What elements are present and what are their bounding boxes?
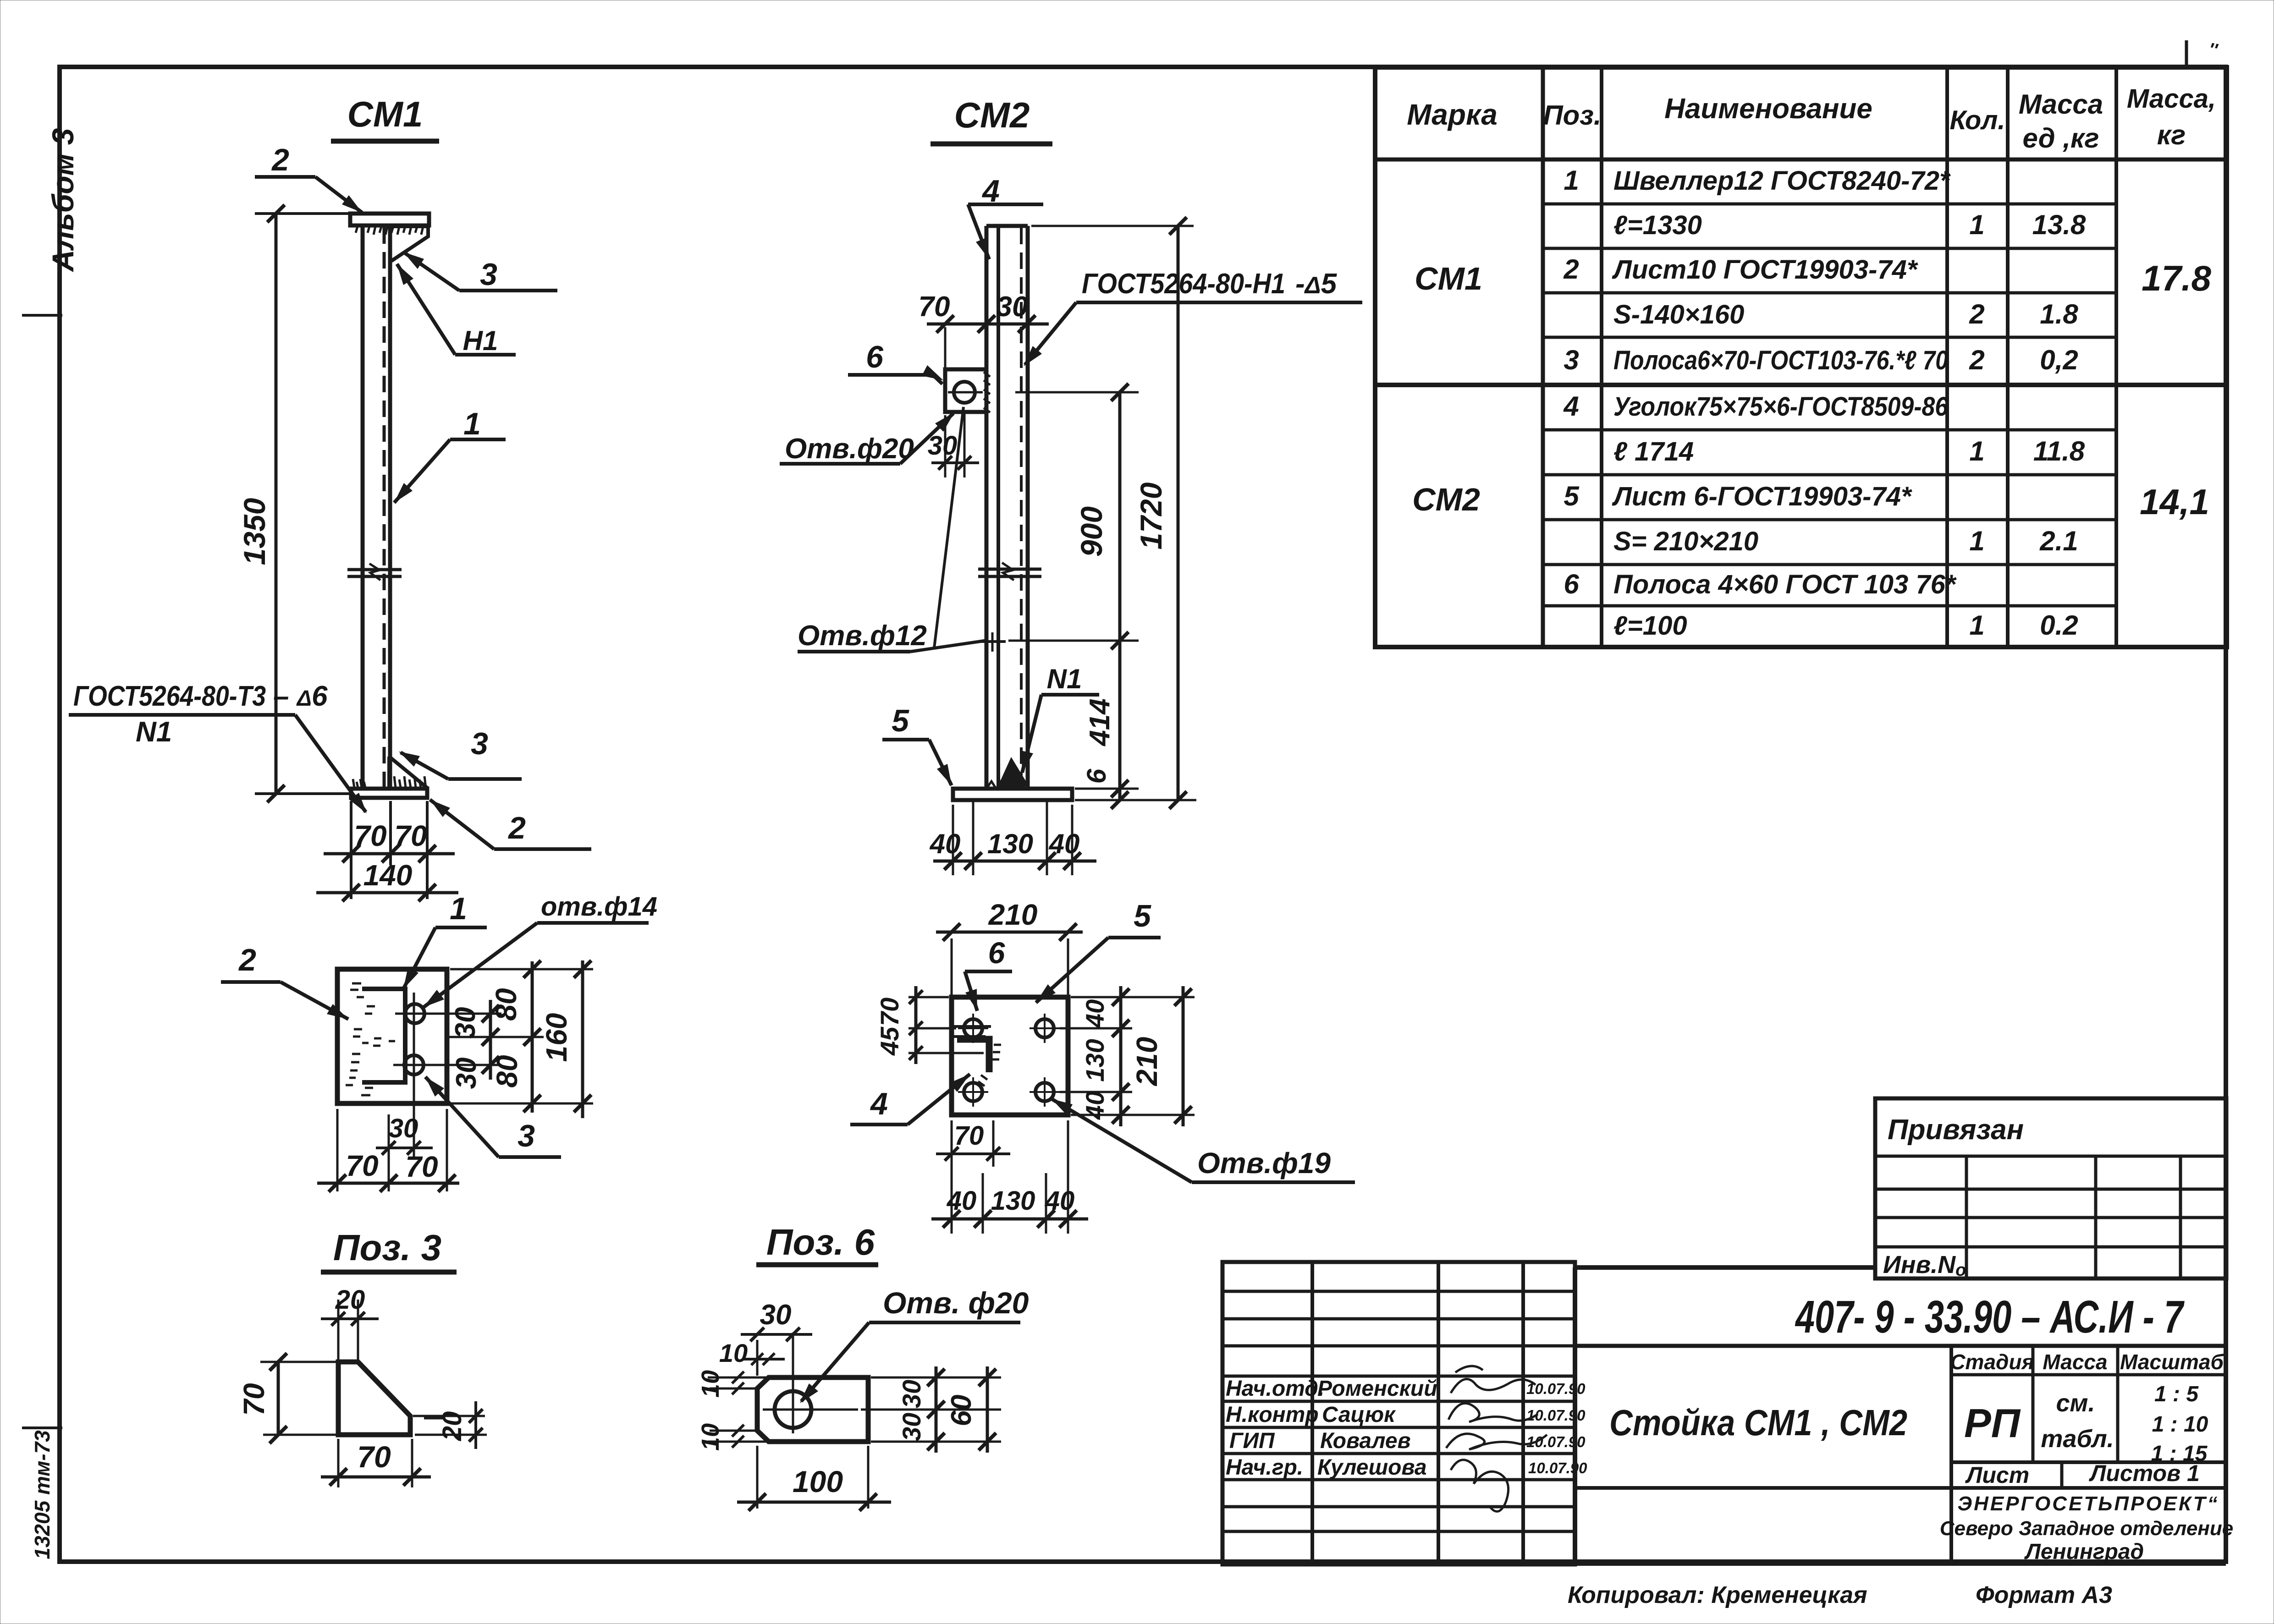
CM2 dim 30 below line xyxy=(931,461,979,464)
Поз.6 dim 10 left lower ext xyxy=(710,1430,755,1432)
svg-text:1: 1 xyxy=(1969,526,1984,556)
svg-text:130: 130 xyxy=(987,828,1033,859)
CM2 weld zigzag at column base xyxy=(986,781,1025,789)
CM2 dim 1720 ext top xyxy=(1031,225,1194,227)
svg-text:10: 10 xyxy=(719,1339,748,1367)
svg-text:160: 160 xyxy=(540,1013,573,1062)
svg-text:Копировал: Кременецкая: Копировал: Кременецкая xyxy=(1568,1582,1867,1608)
svg-text:13205 тм-73: 13205 тм-73 xyxy=(30,1430,54,1559)
CM2 plate top ext line xyxy=(1075,788,1139,790)
svg-text:Масса: Масса xyxy=(2019,89,2103,120)
svg-text:1: 1 xyxy=(1969,610,1984,641)
CM2 plan weld marks xyxy=(991,1045,1001,1059)
CM2 plan dim 40/130/40 bottom line xyxy=(931,1218,1088,1221)
CM1 title underline xyxy=(331,139,439,144)
svg-text:80: 80 xyxy=(490,988,523,1020)
CM2 plan dim 210 top line xyxy=(936,931,1083,934)
CM2 dim 70/30 ext lines xyxy=(944,327,947,368)
Поз.3 dim 70 left line xyxy=(277,1362,280,1435)
CM2 column (поз.4 уголок 75×75×6) top edge xyxy=(986,224,1028,228)
CM2 plate bottom ext line xyxy=(1075,799,1196,801)
svg-text:Н1: Н1 xyxy=(463,325,498,356)
signature table outer xyxy=(1222,1262,1575,1564)
svg-text:1720: 1720 xyxy=(1134,482,1168,549)
svg-text:Масштаб: Масштаб xyxy=(2120,1350,2224,1374)
привязан row line 2 xyxy=(1875,1188,2226,1191)
svg-text:Уголок75×75×6-ГОСТ8509-86: Уголок75×75×6-ГОСТ8509-86 xyxy=(1613,392,1949,422)
svg-text:Масса: Масса xyxy=(2043,1350,2107,1374)
svg-text:ГОСТ5264-80-Т3: ГОСТ5264-80-Т3 xyxy=(73,680,266,712)
CM2 plan hole TR ф19 xyxy=(1035,1019,1054,1037)
svg-text:Ковалев: Ковалев xyxy=(1320,1429,1411,1453)
svg-text:Лист10 ГОСТ19903-74*: Лист10 ГОСТ19903-74* xyxy=(1612,255,1918,285)
svg-text:40: 40 xyxy=(1080,999,1109,1028)
svg-text:– Δ6: – Δ6 xyxy=(273,680,328,712)
CM2 plan dim 70 bottom line xyxy=(936,1152,1010,1155)
привязан row line 1 xyxy=(1875,1155,2226,1158)
стадия/масса/масштаб grid xyxy=(1949,1346,1953,1564)
CM1 plan ext top edge xyxy=(450,968,593,971)
CM2 plan bottom ext lines xyxy=(951,1120,953,1234)
svg-text:14,1: 14,1 xyxy=(2140,482,2209,522)
Поз.3 dim 20 right ext lines xyxy=(413,1415,485,1417)
svg-text:70: 70 xyxy=(354,819,386,852)
svg-text:СМ2: СМ2 xyxy=(954,95,1030,135)
sig col line 3 xyxy=(1521,1262,1525,1564)
svg-text:1 : 10: 1 : 10 xyxy=(2152,1412,2208,1437)
svg-text:130: 130 xyxy=(1080,1039,1109,1081)
CM1 dim 1350 extension bottom xyxy=(255,792,349,795)
svg-text:Наименование: Наименование xyxy=(1664,93,1872,125)
svg-text:6: 6 xyxy=(1564,569,1579,599)
svg-text:1: 1 xyxy=(463,406,481,441)
CM2 plan hole BL ф19 xyxy=(964,1083,982,1101)
CM2 dim 40/130/40 line xyxy=(933,860,1096,863)
svg-text:40: 40 xyxy=(930,828,961,859)
svg-text:210: 210 xyxy=(988,898,1038,931)
title block main box xyxy=(1575,1265,1875,1270)
svg-text:Отв.ф20: Отв.ф20 xyxy=(785,433,914,465)
sig row line y=3342 xyxy=(1222,1530,1575,1533)
svg-text:70: 70 xyxy=(405,1150,438,1183)
Поз.3 dim 70 bottom line xyxy=(321,1476,431,1479)
sig row line y=2878 xyxy=(1222,1317,1575,1321)
svg-text:2: 2 xyxy=(271,143,289,177)
CM2 dim 30 below-plate ext xyxy=(944,415,947,477)
CM2 plan right ext lines xyxy=(1071,996,1195,999)
CM1 plan dim 160 line xyxy=(581,960,584,1118)
CM2 break symbol xyxy=(978,568,1041,571)
svg-text:30: 30 xyxy=(997,291,1028,323)
Поз.6 dim 10 left upper ext xyxy=(708,1377,766,1379)
CM1 bottom dim extension lines xyxy=(350,801,352,899)
CM1 dim 140 line xyxy=(316,891,458,894)
svg-text:1: 1 xyxy=(450,891,467,926)
svg-text:Марка: Марка xyxy=(1407,98,1498,131)
svg-text:Кулешова: Кулешова xyxy=(1317,1455,1427,1480)
svg-text:1: 1 xyxy=(1969,436,1984,466)
table column line Наименование/Кол xyxy=(1945,67,1949,647)
Поз.3 gusset outline xyxy=(338,1362,410,1435)
svg-text:Листов 1: Листов 1 xyxy=(2089,1460,2200,1486)
svg-text:ГИП: ГИП xyxy=(1229,1429,1275,1453)
svg-text:6: 6 xyxy=(1082,768,1112,784)
CM1 top gusset (поз.3) xyxy=(391,226,428,261)
svg-text:Швеллер12 ГОСТ8240-72*: Швеллер12 ГОСТ8240-72* xyxy=(1613,166,1951,196)
CM1 plan crosshair top hole xyxy=(395,1013,501,1015)
CM1 plan channel section xyxy=(362,989,405,1082)
sig col line 1 xyxy=(1310,1262,1314,1564)
CM2 plan dim 210 right line xyxy=(1182,986,1185,1126)
CM2 column right edge xyxy=(1026,226,1030,789)
svg-text:0.2: 0.2 xyxy=(2040,610,2078,641)
svg-text:Формат А3: Формат А3 xyxy=(1976,1582,2112,1608)
svg-text:70: 70 xyxy=(357,1440,391,1474)
svg-text:СМ1: СМ1 xyxy=(1415,261,1482,296)
svg-text:17.8: 17.8 xyxy=(2142,258,2211,298)
CM2 plan hole BR ф19 xyxy=(1035,1083,1054,1101)
CM2 weld gusset at column base xyxy=(997,757,1029,787)
svg-text:3: 3 xyxy=(518,1119,535,1153)
table header bottom line xyxy=(1375,158,2227,162)
svg-text:4: 4 xyxy=(1563,391,1579,422)
svg-text:Поз. 3: Поз. 3 xyxy=(333,1227,441,1268)
svg-text:40: 40 xyxy=(947,1186,977,1216)
CM2 plan angle section xyxy=(957,1039,989,1072)
svg-text:ГОСТ5264-80-Н1: ГОСТ5264-80-Н1 xyxy=(1082,268,1285,300)
CM2 column left leg outer xyxy=(985,226,989,789)
svg-text:Поз. 6: Поз. 6 xyxy=(766,1222,875,1262)
CM1 weld ticks under top plate xyxy=(356,226,358,233)
CM1 dim 70/70 line xyxy=(324,852,455,856)
svg-text:70: 70 xyxy=(394,819,427,852)
svg-text:1: 1 xyxy=(1564,165,1579,196)
CM1 weld ticks above bottom plate xyxy=(353,779,354,788)
sig row line y=3288 xyxy=(1222,1505,1575,1509)
svg-text:2: 2 xyxy=(238,943,256,977)
svg-text:70: 70 xyxy=(875,998,904,1026)
svg-text:Отв.ф19: Отв.ф19 xyxy=(1197,1147,1331,1180)
CM2 base plate (поз.5) xyxy=(953,789,1072,800)
svg-text:табл.: табл. xyxy=(2041,1425,2114,1453)
Поз.6 hole ф20 xyxy=(775,1391,811,1428)
svg-text:10: 10 xyxy=(697,1370,724,1398)
svg-text:Н.контр: Н.контр xyxy=(1226,1403,1319,1427)
table row line y=639 xyxy=(1543,291,2116,295)
svg-text:140: 140 xyxy=(363,859,413,892)
CM2 bottom dim ext lines xyxy=(952,805,954,875)
CM1 bottom base plate (поз.2) xyxy=(351,789,427,798)
svg-text:40: 40 xyxy=(1080,1091,1109,1120)
signature squiggle 2 xyxy=(1448,1403,1538,1422)
svg-text:5: 5 xyxy=(892,703,909,738)
svg-text:ℓ=1330: ℓ=1330 xyxy=(1613,210,1702,240)
table row line y=542 xyxy=(1543,247,2116,250)
table row line y=445 xyxy=(1543,203,2116,206)
sig row line y=2937 xyxy=(1222,1344,1575,1348)
svg-text:70: 70 xyxy=(919,291,950,323)
Поз.3 dim 20 right line xyxy=(474,1401,477,1449)
svg-text:20: 20 xyxy=(437,1411,467,1442)
svg-text:6: 6 xyxy=(866,340,884,374)
CM2 поз.6 hole crosshair xyxy=(948,391,983,394)
svg-text:10.07.90: 10.07.90 xyxy=(1528,1459,1587,1476)
svg-text:S= 210×210: S= 210×210 xyxy=(1613,527,1758,556)
CM1 plan dim 30/30 line xyxy=(489,1000,492,1080)
page mark top right xyxy=(2185,40,2188,67)
Поз.6 dim 30 top line xyxy=(741,1333,812,1336)
Поз.6 dim 100 ext lines xyxy=(756,1446,759,1509)
svg-text:3: 3 xyxy=(471,726,488,761)
svg-text:10: 10 xyxy=(697,1423,724,1451)
CM2 plan поз.6 plate edges xyxy=(953,1025,991,1028)
CM2 plan left ext lines xyxy=(908,996,949,999)
svg-text:30: 30 xyxy=(451,1058,482,1089)
table column line Кол/Масса ед xyxy=(2006,67,2010,647)
привязан col line 1 xyxy=(1965,1156,1968,1278)
svg-text:407- 9 - 33.90 – АС.И - 7: 407- 9 - 33.90 – АС.И - 7 xyxy=(1795,1291,2185,1343)
CM1 plan hole top ф14 xyxy=(405,1004,424,1023)
svg-text:СМ2: СМ2 xyxy=(1412,482,1480,517)
svg-text:45: 45 xyxy=(875,1026,904,1056)
svg-text:4: 4 xyxy=(870,1086,888,1121)
svg-text:5: 5 xyxy=(1134,899,1151,933)
Поз.3 dim 20 top ext lines xyxy=(337,1300,340,1360)
Поз.6 dim 30 top ext xyxy=(756,1340,759,1376)
svg-text:Масса,: Масса, xyxy=(2127,84,2216,114)
CM2 dim 900/414/6 line xyxy=(1118,392,1122,800)
svg-text:Отв. ф20: Отв. ф20 xyxy=(883,1286,1029,1320)
table column line Масса ед/Масса кг xyxy=(2114,67,2118,647)
doc number cell bottom line xyxy=(1575,1344,2226,1348)
svg-text:2: 2 xyxy=(1969,345,1984,375)
svg-text:80: 80 xyxy=(490,1055,523,1087)
svg-text:Лист: Лист xyxy=(1965,1462,2029,1488)
CM2 dim 70/30 line xyxy=(927,323,1049,326)
svg-text:отв.ф14: отв.ф14 xyxy=(541,892,657,922)
CM2 plan hole crosshairs xyxy=(958,1027,988,1029)
sig row line y=2818 xyxy=(1222,1290,1575,1293)
CM2 ф12 level ext line xyxy=(1008,640,1139,642)
svg-text:кг: кг xyxy=(2157,120,2186,150)
table column line Поз/Наименование xyxy=(1600,67,1603,647)
svg-text:Роменский: Роменский xyxy=(1317,1377,1437,1401)
CM2 title underline xyxy=(931,142,1052,147)
CM1 dim 1350 line xyxy=(275,214,278,794)
table row line y=736 xyxy=(1543,336,2116,339)
Поз.6 hole crosshair xyxy=(763,1409,858,1411)
svg-text:70: 70 xyxy=(954,1121,984,1151)
signature squiggle 4 xyxy=(1451,1460,1509,1512)
CM2 поз.6 hole ф20 xyxy=(954,382,975,403)
CM1 bottom gusset (поз.3) xyxy=(389,757,428,789)
Поз.6 title underline xyxy=(756,1262,878,1267)
svg-text:130: 130 xyxy=(991,1186,1035,1216)
svg-text:11.8: 11.8 xyxy=(2033,436,2085,466)
CM1 plan base plate xyxy=(337,969,447,1103)
CM1 plan mid extension xyxy=(449,1036,544,1038)
привязан row line 3 xyxy=(1875,1216,2226,1219)
Поз.6 dim 100 line xyxy=(737,1501,891,1504)
left margin tick lower xyxy=(22,1426,62,1429)
CM1 column (поз.1 швеллер12) left edge xyxy=(361,225,365,789)
table row line y=1134 xyxy=(1543,518,2116,521)
Поз.3 dim 70 left ext lines xyxy=(260,1361,336,1363)
svg-text:Лист 6-ГОСТ19903-74*: Лист 6-ГОСТ19903-74* xyxy=(1612,482,1912,511)
svg-text:Стадия: Стадия xyxy=(1950,1350,2034,1374)
table row line y=1322 xyxy=(1543,604,2116,608)
signature squiggle 3 xyxy=(1446,1434,1547,1449)
svg-text:Сацюк: Сацюк xyxy=(1322,1403,1396,1427)
svg-text:6: 6 xyxy=(988,936,1006,970)
привязан box outer xyxy=(1875,1098,2226,1278)
svg-text:Полоса 4×60 ГОСТ 103 76*: Полоса 4×60 ГОСТ 103 76* xyxy=(1613,570,1957,599)
svg-text:-Δ5: -Δ5 xyxy=(1295,268,1338,300)
svg-text:Привязан: Привязан xyxy=(1888,1114,2024,1146)
CM1 plan dim 80/80 line xyxy=(531,961,534,1113)
svg-text:30: 30 xyxy=(389,1114,418,1143)
svg-text:РП: РП xyxy=(1964,1400,2021,1446)
svg-text:100: 100 xyxy=(793,1465,843,1498)
svg-text:2: 2 xyxy=(1969,299,1984,329)
svg-text:Полоса6×70-ГОСТ103-76.*ℓ 70: Полоса6×70-ГОСТ103-76.*ℓ 70 xyxy=(1613,346,1948,375)
sig row line y=3229 xyxy=(1222,1478,1575,1481)
svg-text:ℓ=100: ℓ=100 xyxy=(1613,611,1687,641)
привязан col line 2 xyxy=(2094,1156,2098,1278)
svg-text:30: 30 xyxy=(760,1299,792,1331)
CM1 top plate (поз.2) xyxy=(350,214,429,225)
svg-text:1350: 1350 xyxy=(237,498,271,565)
svg-text:2: 2 xyxy=(507,811,526,845)
svg-text:60: 60 xyxy=(946,1395,977,1426)
sig row line y=3003 xyxy=(1222,1375,1575,1378)
table row line y=938 xyxy=(1543,428,2116,432)
CM1 dim 1350 extension top xyxy=(255,212,356,215)
svg-text:S-140×160: S-140×160 xyxy=(1613,300,1744,329)
привязан col line 3 xyxy=(2179,1156,2182,1278)
CM1 plan dim 30 bottom line xyxy=(376,1147,433,1149)
svg-text:Кол.: Кол. xyxy=(1949,105,2005,135)
svg-text:1.8: 1.8 xyxy=(2040,299,2078,329)
CM1 column hidden web line (dashed) xyxy=(383,227,386,787)
Поз.6 dim 30/30 right line xyxy=(935,1366,938,1453)
svg-text:414: 414 xyxy=(1084,698,1116,746)
svg-text:Отв.ф12: Отв.ф12 xyxy=(798,620,927,652)
привязан row line 4 xyxy=(1875,1245,2226,1249)
CM2 plan left dim line xyxy=(914,986,918,1064)
CM1 plan ext bottom edge xyxy=(450,1103,593,1105)
svg-text:3: 3 xyxy=(480,257,497,292)
svg-text:13.8: 13.8 xyxy=(2032,209,2086,240)
svg-text:N1: N1 xyxy=(1047,664,1082,694)
Поз.3 dim 20 top line xyxy=(321,1317,379,1320)
svg-text:N1: N1 xyxy=(136,716,172,748)
svg-text:2: 2 xyxy=(1563,254,1579,285)
svg-text:см.: см. xyxy=(2056,1389,2095,1417)
CM1 column right edge xyxy=(388,225,392,789)
svg-text:30: 30 xyxy=(897,1413,926,1441)
sig row line y=3115 xyxy=(1222,1426,1575,1429)
svg-text:210: 210 xyxy=(1130,1037,1163,1086)
Поз.6 dim 60 line xyxy=(986,1366,989,1453)
CM1 plan weld marks xyxy=(350,983,364,997)
CM2 weld ticks поз.6/column xyxy=(984,372,990,412)
svg-text:1 : 5: 1 : 5 xyxy=(2154,1382,2199,1406)
CM1 plan hole bottom ф14 xyxy=(404,1055,424,1075)
CM2 поз.6 plate on column xyxy=(945,369,986,412)
left margin tick upper xyxy=(22,314,62,317)
svg-text:70: 70 xyxy=(346,1149,378,1182)
Поз.6 plate outline xyxy=(757,1377,868,1442)
CM2 leader ф12 upper hole xyxy=(934,407,964,648)
sig row line y=3058 xyxy=(1222,1400,1575,1403)
svg-text:30: 30 xyxy=(897,1380,926,1408)
svg-text:ЭНЕРГОСЕТЬПРОЕКТ“: ЭНЕРГОСЕТЬПРОЕКТ“ xyxy=(1958,1492,2219,1515)
svg-text:20: 20 xyxy=(335,1285,365,1315)
CM1 plan crosshair bottom hole xyxy=(393,1064,501,1066)
table column line Марка/Поз xyxy=(1541,67,1545,647)
svg-text:Нач.гр.: Нач.гр. xyxy=(1226,1455,1303,1480)
CM1 plan dim 70/70 bottom line xyxy=(317,1182,459,1185)
CM1 break symbol xyxy=(347,568,402,571)
CM2 plan right dim 40/130/40 line xyxy=(1119,986,1123,1126)
svg-text:0,2: 0,2 xyxy=(2040,345,2078,375)
CM2 plan hole TL ф19 xyxy=(964,1019,982,1037)
Поз.6 dim 10 top line xyxy=(743,1358,785,1361)
CM2 ф12 hole mark xyxy=(981,640,1006,643)
CM2 column left leg inner xyxy=(997,226,1000,789)
svg-text:Стойка СМ1 , СМ2: Стойка СМ1 , СМ2 xyxy=(1609,1402,1907,1443)
parts table (спецификация) outer box xyxy=(1375,67,2227,647)
table CM1/CM2 divider xyxy=(1375,383,2227,387)
CM2 plan base plate xyxy=(952,997,1068,1115)
svg-text:Нач.отд.: Нач.отд. xyxy=(1226,1377,1324,1401)
svg-text:70: 70 xyxy=(237,1383,270,1416)
CM1 plan bottom ext lines xyxy=(336,1109,339,1191)
svg-text:5: 5 xyxy=(1564,481,1580,511)
sig col line 2 xyxy=(1437,1262,1440,1564)
svg-text:3: 3 xyxy=(1564,345,1579,375)
CM1 plan vertical axis through holes xyxy=(413,993,415,1158)
svg-text:ед ,кг: ед ,кг xyxy=(2023,123,2099,154)
CM2 dim 1720 line xyxy=(1177,226,1180,800)
Поз.3 dim 70 bottom ext lines xyxy=(337,1439,340,1487)
svg-text:900: 900 xyxy=(1074,506,1108,557)
svg-text:ℓ 1714: ℓ 1714 xyxy=(1613,437,1694,466)
svg-text:СМ1: СМ1 xyxy=(347,94,423,134)
Поз.6 right ext lines xyxy=(871,1377,1001,1379)
svg-text:Инв.No: Инв.No xyxy=(1883,1251,1966,1280)
svg-text:30: 30 xyxy=(450,1007,481,1039)
sig row line y=3172 xyxy=(1222,1452,1575,1455)
svg-text:'': '' xyxy=(2207,39,2219,61)
CM2 column hidden line dashed xyxy=(1020,228,1023,787)
Поз.3 title underline xyxy=(321,1270,457,1275)
CM2 plan top ext lines xyxy=(951,938,953,997)
svg-text:40: 40 xyxy=(1045,1186,1075,1216)
svg-text:1: 1 xyxy=(1969,209,1984,240)
svg-text:Альбом 3: Альбом 3 xyxy=(46,128,80,273)
svg-text:2.1: 2.1 xyxy=(2039,526,2078,556)
svg-text:40: 40 xyxy=(1049,828,1080,859)
svg-text:Поз.: Поз. xyxy=(1543,100,1601,131)
table row line y=1232 xyxy=(1543,563,2116,566)
signature squiggle 1 xyxy=(1451,1379,1536,1393)
svg-text:Ленинград: Ленинград xyxy=(2024,1540,2144,1564)
CM2 dim 900 ext xyxy=(1015,391,1139,394)
Поз.3 dash mark xyxy=(424,1416,443,1420)
table row line y=1036 xyxy=(1543,473,2116,477)
